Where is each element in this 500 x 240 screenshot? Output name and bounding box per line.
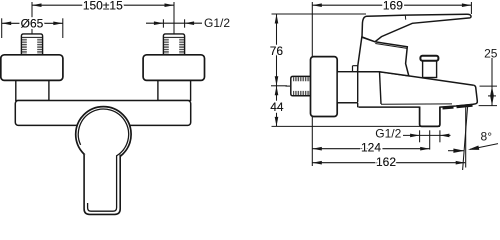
leader line G1/2 to outlet	[403, 134, 420, 136]
connector block right (front view)	[158, 80, 191, 100]
spout outlet slots	[443, 105, 473, 108]
cartridge collar	[358, 37, 409, 76]
lever handle (side view)	[362, 14, 471, 42]
arrow outside-left pointing right at G1/2	[146, 22, 163, 24]
extension line: lever tip	[470, 2, 472, 14]
arrow left of 169	[312, 3, 322, 7]
threaded pipe (side view)	[291, 76, 312, 95]
handle grip (front view)	[84, 154, 120, 214]
arrow up 44	[275, 86, 279, 96]
arrow down 25	[490, 96, 494, 106]
extension line right of G1/2 (front)	[184, 19, 186, 27]
centre tick 25	[488, 95, 496, 97]
dimension line 169	[312, 4, 471, 6]
handle cap outer circle (front view)	[76, 107, 131, 162]
8 degree reference lines	[465, 108, 467, 168]
extension line outlet right edge	[439, 130, 441, 142]
extension line left of G1/2 (front)	[162, 19, 164, 27]
extension line 25 bottom	[479, 105, 497, 107]
arrow right of 150±15	[165, 3, 175, 7]
threaded pipe left (front view)	[21, 34, 42, 55]
svg-text:44: 44	[270, 100, 284, 114]
lever top tick	[404, 15, 406, 20]
svg-text:8°: 8°	[481, 130, 493, 144]
svg-text:76: 76	[270, 44, 284, 58]
wall escutcheon right (front view)	[143, 55, 204, 81]
threaded pipe right (front view)	[163, 34, 184, 55]
thread hatching side pipe	[294, 77, 309, 95]
extension line: wall face	[311, 2, 313, 166]
diverter knob cap	[420, 56, 438, 61]
arrow pointing left at outlet right edge	[440, 134, 451, 136]
arrow up 25	[490, 86, 494, 96]
neck step line	[353, 66, 359, 72]
thread hatching right pipe	[163, 39, 184, 53]
dimension line 76/44 vertical	[276, 14, 278, 126]
dimension 124	[312, 148, 429, 150]
body bottom seam line	[381, 103, 452, 105]
dimension line 150±15	[32, 4, 174, 6]
extension line 25 top	[480, 85, 498, 87]
svg-text:169: 169	[383, 0, 403, 12]
mixer body bar (front view)	[15, 101, 190, 126]
cartridge block front edge	[380, 72, 382, 104]
arrow outside-right pointing left at G1/2	[185, 22, 202, 24]
neck between escutcheon and body	[337, 72, 358, 103]
arrow left of 150±15	[32, 3, 42, 7]
pipe centreline tick	[271, 85, 287, 87]
svg-text:Ø65: Ø65	[21, 16, 44, 30]
extension line: left pipe centerline	[31, 2, 33, 34]
extension line: right pipe centerline	[173, 2, 175, 34]
wall escutcheon left (front view)	[1, 55, 63, 81]
arrow down 76 at pipe centre	[275, 76, 279, 86]
spout tip face	[473, 85, 477, 104]
arrow right of Ø65	[53, 22, 63, 26]
svg-text:G1/2: G1/2	[375, 127, 401, 141]
extension line bottom 44	[272, 125, 441, 127]
dimension 162	[312, 162, 465, 164]
main spout body (side view)	[358, 72, 478, 108]
arrow up 76	[275, 14, 279, 24]
neck bottom seam	[337, 102, 358, 104]
bottom outlet pipe G1/2 (side view)	[420, 107, 440, 127]
extension line right of Ø65	[62, 18, 64, 38]
arrow left of Ø65	[2, 22, 12, 26]
arrow down 44	[275, 117, 279, 127]
diverter knob stem	[423, 61, 437, 78]
body left-bottom step	[357, 103, 359, 108]
extension line left of Ø65	[1, 18, 3, 38]
svg-text:G1/2: G1/2	[204, 16, 230, 30]
body top edge	[380, 72, 474, 86]
wall escutcheon (side view)	[311, 57, 338, 117]
collar top inner line	[375, 44, 407, 49]
svg-text:150±15: 150±15	[83, 0, 123, 12]
dimension line G1/2 (front)	[163, 22, 184, 24]
svg-text:124: 124	[361, 141, 381, 155]
svg-text:162: 162	[376, 155, 396, 169]
dimension line 25 vertical	[491, 58, 493, 106]
svg-text:25: 25	[484, 46, 498, 60]
angle reference arrow pointing right at 8° lines	[448, 150, 464, 152]
body bottom edge left of outlet	[359, 106, 420, 108]
8 degree leader arrow	[470, 144, 498, 150]
outlet centreline	[429, 130, 431, 149]
dimension line Ø65	[2, 22, 63, 24]
pipe centreline tick left of pipe	[286, 85, 291, 87]
connector block left (front view)	[16, 80, 49, 100]
extension line outlet left edge	[419, 130, 421, 142]
thread hatching left pipe	[21, 39, 42, 53]
extension line: top of lever (76)	[272, 13, 367, 15]
dimension line between outlet edges	[420, 134, 440, 136]
body bottom edge right of outlet	[440, 104, 474, 107]
handle grip inner line	[78, 109, 128, 211]
arrow right of 169	[462, 3, 472, 7]
